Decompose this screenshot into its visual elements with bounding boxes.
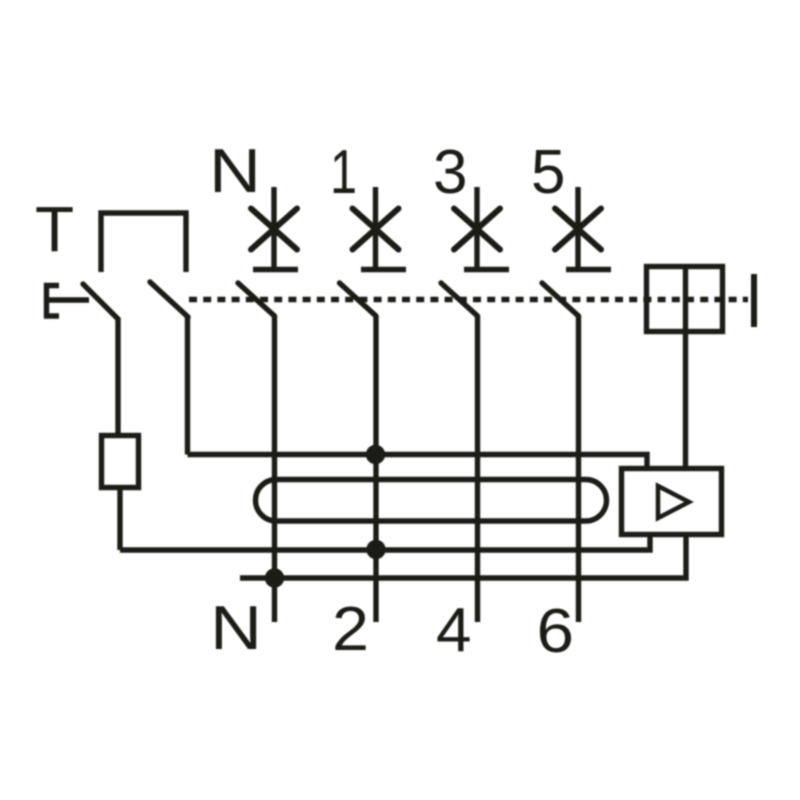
svg-text:6: 6 bbox=[537, 597, 575, 666]
svg-text:3: 3 bbox=[433, 138, 467, 207]
svg-text:5: 5 bbox=[531, 138, 565, 207]
svg-text:N: N bbox=[209, 137, 261, 206]
svg-text:N: N bbox=[210, 594, 262, 663]
svg-text:1: 1 bbox=[330, 138, 357, 207]
svg-text:T: T bbox=[35, 193, 74, 265]
svg-text:4: 4 bbox=[436, 596, 472, 665]
svg-text:2: 2 bbox=[332, 595, 369, 664]
